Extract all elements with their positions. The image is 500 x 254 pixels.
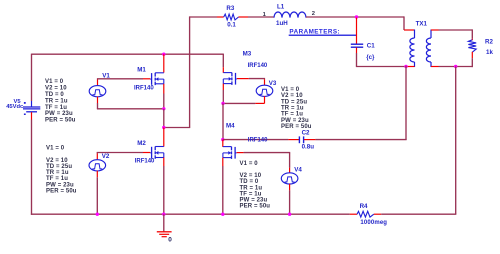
wire: secondary top to R2 <box>439 29 473 38</box>
svg-text:V1 = 0: V1 = 0 <box>46 146 65 152</box>
ground 0 <box>157 214 172 237</box>
wire: M4 source to bottom rail <box>222 166 224 214</box>
inductor L1 <box>274 12 306 18</box>
svg-text:IRF140: IRF140 <box>135 158 155 164</box>
pulse params text V4 <box>240 161 271 210</box>
svg-text:PER = 50u: PER = 50u <box>46 188 77 194</box>
svg-text:1uH: 1uH <box>276 20 288 27</box>
wire: M1 source to left midpoint <box>163 109 165 128</box>
transistor M2 <box>143 128 164 167</box>
wire: secondary tap down to R4 rail <box>455 67 457 215</box>
svg-text:1000meg: 1000meg <box>360 220 387 226</box>
svg-text:TF = 1u: TF = 1u <box>45 105 67 111</box>
wire: R2 bottom / secondary bottom rail <box>439 58 473 67</box>
svg-text:TD = 0: TD = 0 <box>45 92 64 98</box>
transistor M4 (mirrored) <box>223 140 244 166</box>
wire: V1 minus to M1 source <box>97 94 164 109</box>
svg-text:TD = 0: TD = 0 <box>240 179 259 185</box>
pulse params text V3 <box>281 87 312 130</box>
svg-text:TX1: TX1 <box>416 20 428 27</box>
junction: C1 top tap <box>355 15 358 18</box>
svg-text:PER = 50u: PER = 50u <box>45 118 76 124</box>
PARAMETERS: block <box>289 29 357 36</box>
svg-text:0: 0 <box>168 236 172 243</box>
svg-text:L1: L1 <box>277 3 285 10</box>
svg-text:M3: M3 <box>243 51 252 58</box>
svg-text:IRF140: IRF140 <box>134 86 154 92</box>
svg-text:V2 = 10: V2 = 10 <box>281 93 303 99</box>
svg-text:TF = 1u: TF = 1u <box>281 112 303 118</box>
svg-text:0.8u: 0.8u <box>302 144 315 151</box>
svg-text:M4: M4 <box>226 122 235 129</box>
svg-text:V2 = 10: V2 = 10 <box>240 173 262 179</box>
svg-text:M2: M2 <box>137 140 146 147</box>
svg-text:TR = 1u: TR = 1u <box>281 106 304 112</box>
resistor R3 <box>217 14 248 20</box>
svg-text:PER = 50u: PER = 50u <box>240 204 271 210</box>
resistor R4 <box>350 211 381 217</box>
svg-text:C2: C2 <box>302 129 310 136</box>
svg-text:0.1: 0.1 <box>227 21 236 28</box>
battery V5 45Vdc <box>23 101 40 120</box>
wire: V3 minus to M3 source node <box>223 102 256 104</box>
junction: M4 source on bottom rail <box>221 213 224 216</box>
pulse params text V2 <box>46 146 77 195</box>
resistor R2 <box>468 39 476 58</box>
svg-text:2: 2 <box>312 11 315 17</box>
svg-text:PER = 50u: PER = 50u <box>281 124 312 130</box>
svg-text:IRF140: IRF140 <box>248 138 268 144</box>
capacitor C2 <box>288 136 315 143</box>
junction: secondary bottom tap <box>454 65 457 68</box>
junction: V1- / M1 source <box>162 107 165 110</box>
svg-text:PW = 23u: PW = 23u <box>281 118 309 124</box>
svg-text:V4: V4 <box>294 167 302 174</box>
svg-text:{c}: {c} <box>366 54 375 61</box>
wire: C2 line (midpoint to transformer return) <box>223 139 407 141</box>
svg-text:TR = 1u: TR = 1u <box>46 170 69 176</box>
wire: V2 plus to M2 gate <box>97 152 143 155</box>
svg-text:V3: V3 <box>269 80 277 87</box>
transistor M3 (mirrored) <box>223 67 249 90</box>
svg-text:R2: R2 <box>485 39 493 46</box>
svg-text:45Vdc: 45Vdc <box>6 104 24 110</box>
wire: L1 to TX1 primary top (through C1 tap) <box>306 16 404 30</box>
pulse source V4 <box>281 168 298 191</box>
transistor M1 <box>143 54 164 93</box>
junction: M2 source / ground on bottom rail <box>162 213 165 216</box>
svg-text:TR = 1u: TR = 1u <box>240 185 263 191</box>
svg-text:M1: M1 <box>137 66 146 73</box>
wire: R3 to L1 <box>248 16 274 18</box>
svg-text:V2: V2 <box>102 153 110 160</box>
svg-text:V1 = 0: V1 = 0 <box>240 161 259 167</box>
junction: V2- on bottom rail <box>96 213 99 216</box>
wire: top output run (bridge left midpoint up to R3/L1 line) <box>164 16 217 127</box>
svg-text:V2 = 10: V2 = 10 <box>46 158 68 164</box>
svg-text:TF = 1u: TF = 1u <box>46 176 68 182</box>
junction: M3 source / V3- <box>221 102 224 105</box>
wire: V4 minus to bottom rail <box>289 190 291 214</box>
svg-text:PW = 23u: PW = 23u <box>45 111 73 117</box>
wire: left supply loop (top rail, left side, bottom rail) <box>31 54 350 215</box>
pulse source V1 <box>89 79 106 103</box>
wire: primary bottom down to C2 line <box>405 66 407 140</box>
pulse source V2 <box>89 153 106 177</box>
wire: C1 bottom to TX1 primary bottom <box>356 53 406 67</box>
wire: top rail corner down to M3 drain <box>222 54 224 68</box>
wire: V2 minus to bottom rail <box>96 177 98 214</box>
junction: V4- on bottom rail <box>288 213 291 216</box>
svg-text:V1 = 0: V1 = 0 <box>281 87 300 93</box>
svg-text:PW = 23u: PW = 23u <box>46 182 74 188</box>
wire: M3 gate to V3 plus <box>249 78 265 80</box>
capacitor C1 <box>351 18 363 53</box>
svg-text:C1: C1 <box>367 43 375 50</box>
svg-text:TF = 1u: TF = 1u <box>240 191 262 197</box>
svg-text:PW = 23u: PW = 23u <box>240 198 268 204</box>
junction: primary bottom node <box>404 65 407 68</box>
svg-text:IRF140: IRF140 <box>248 63 268 69</box>
junction: right bridge midpoint <box>221 138 224 141</box>
svg-text:V2 = 10: V2 = 10 <box>45 86 67 92</box>
svg-text:TD = 25u: TD = 25u <box>281 99 307 105</box>
wire: V1 plus to M1 gate <box>97 78 143 80</box>
junction: M1 drain on +rail <box>162 53 165 56</box>
junction: left bridge midpoint <box>162 126 165 129</box>
wire: M3 source down <box>222 90 224 103</box>
svg-text:TD = 25u: TD = 25u <box>46 164 72 170</box>
svg-text:R4: R4 <box>360 203 368 210</box>
wire: M4 gate to V4 plus <box>244 153 291 168</box>
wire: right leg midpoint link <box>222 103 224 139</box>
transformer TX1 <box>404 30 439 68</box>
pulse source V3 <box>255 79 273 103</box>
svg-text:R3: R3 <box>226 5 234 12</box>
svg-text:TR = 1u: TR = 1u <box>45 98 68 104</box>
pulse params text V1 <box>45 79 76 124</box>
wire: R4 to secondary return riser <box>381 213 456 215</box>
svg-text:1k: 1k <box>486 49 493 56</box>
wire: M2 source to bottom rail <box>163 166 165 214</box>
svg-text:V1 = 0: V1 = 0 <box>45 79 64 85</box>
